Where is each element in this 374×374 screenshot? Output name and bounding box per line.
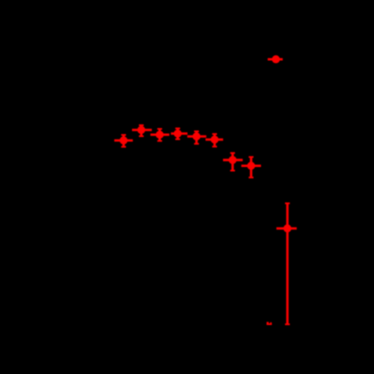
data point P4 (171, 128, 188, 139)
data point P1 (114, 135, 133, 147)
data point P3 (150, 129, 169, 141)
data point P8 (241, 157, 261, 178)
data point P5 (187, 131, 206, 144)
data point P6 (206, 134, 224, 147)
clipped marker fragment near plot bottom edge (267, 322, 272, 325)
data point P7 (223, 153, 243, 171)
data point T1 (top isolated errorbar point) (268, 55, 283, 63)
data point P2 (132, 125, 152, 136)
data point B1 (large vertical error bar) (276, 203, 296, 324)
